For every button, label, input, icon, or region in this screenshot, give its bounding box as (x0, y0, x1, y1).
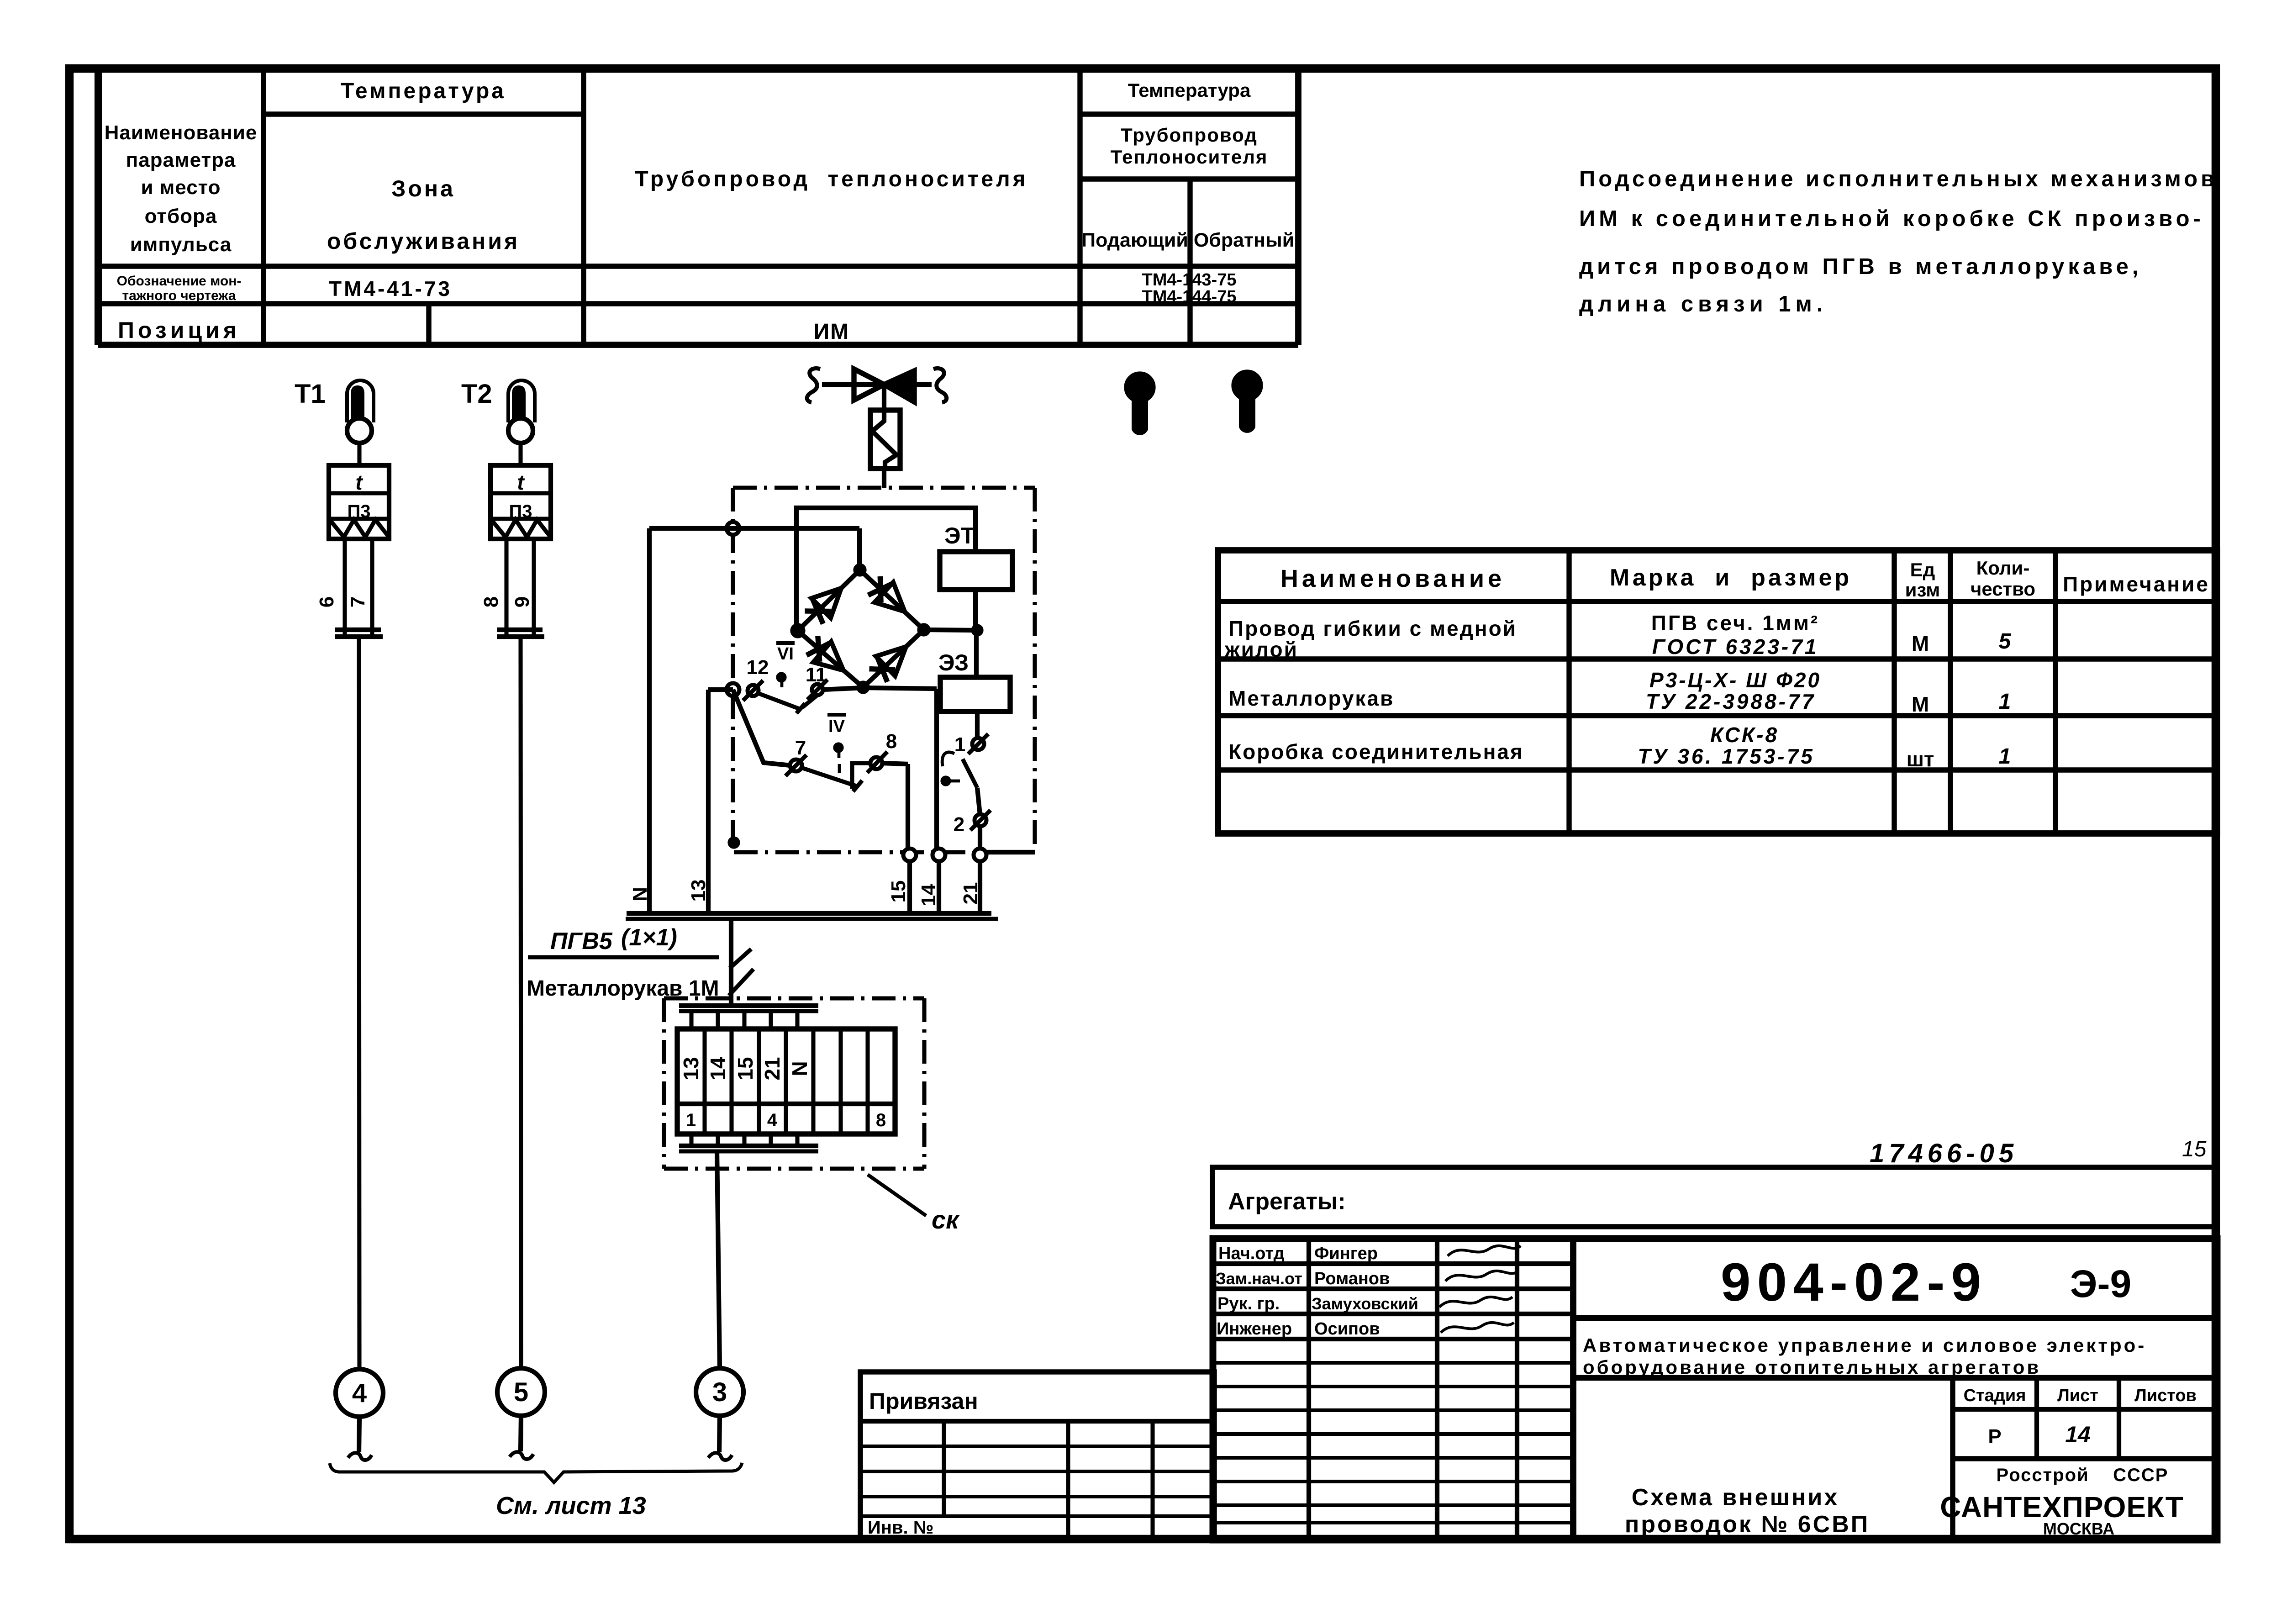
label 7 (347, 596, 369, 607)
svg-text:Наименование: Наименование (1280, 565, 1505, 592)
svg-text:3: 3 (712, 1377, 727, 1407)
wire CK to circle 3 (717, 1151, 720, 1367)
boundary circle wire 14 (933, 849, 945, 861)
label 6 (316, 596, 338, 607)
leader line ПГВ5 (528, 949, 751, 968)
label 11 (806, 664, 827, 686)
wire 9 of T2 (532, 539, 536, 635)
svg-text:отбора: отбора (145, 205, 217, 227)
svg-text:Листов: Листов (2134, 1386, 2197, 1405)
svg-text:4: 4 (352, 1378, 367, 1408)
svg-text:Теплоносителя: Теплоносителя (1111, 146, 1268, 168)
wire 6 of T1 (342, 539, 347, 635)
svg-text:Автоматическое управление и: Автоматическое управление и силовое элек… (1583, 1334, 2146, 1356)
CK terminal numbers (679, 1057, 886, 1130)
wire T1 bulb to sensor box (357, 443, 361, 465)
units box (1212, 1167, 2217, 1227)
label ЭТ (944, 523, 975, 548)
svg-text:Подающий: Подающий (1081, 229, 1188, 251)
contact 1 hook (942, 752, 954, 766)
CK bottom bus bars (679, 1146, 818, 1151)
svg-text:МОСКВА: МОСКВА (2043, 1519, 2114, 1538)
svg-text:Лист: Лист (2057, 1386, 2098, 1405)
svg-text:П3: П3 (348, 501, 371, 522)
pin circle 11 (807, 680, 827, 700)
brace under circles (330, 1463, 742, 1482)
svg-text:Примечание: Примечание (2063, 572, 2210, 596)
svg-text:6: 6 (316, 596, 338, 607)
binding block grid (860, 1372, 1214, 1540)
svg-text:8: 8 (886, 730, 897, 753)
parameters table texts (105, 79, 1295, 344)
wire pin8 to corner (882, 763, 908, 764)
sensor head box T1 (t / П3) (329, 465, 389, 539)
svg-text:13: 13 (679, 1057, 703, 1080)
svg-text:t: t (517, 470, 525, 494)
svg-text:Металлорукав 1М: Металлорукав 1М (527, 976, 719, 1001)
relay coil ЭТ (940, 552, 1012, 590)
parts table grid (1218, 550, 2217, 833)
svg-text:жилой: жилой (1224, 638, 1298, 661)
label VI with overbar (776, 643, 795, 664)
diode D3 (left-bottom edge) (806, 636, 843, 670)
svg-text:Наименование: Наименование (105, 121, 258, 144)
svg-text:Схема внешних: Схема внешних (1632, 1484, 1839, 1511)
svg-text:Температура: Температура (1128, 79, 1251, 101)
svg-text:1: 1 (1999, 690, 2011, 714)
svg-text:15: 15 (887, 881, 910, 903)
svg-text:Ед: Ед (1910, 559, 1935, 580)
svg-text:ЭЗ: ЭЗ (938, 650, 969, 675)
diode D2 (top-right edge) (868, 576, 905, 612)
label Агрегаты (1228, 1188, 1346, 1215)
pin circle 8 (867, 752, 887, 773)
wire to bridge top (857, 528, 862, 570)
inner box top edge (796, 508, 975, 631)
wire from T2 down to circle 5 (521, 637, 521, 1368)
svg-text:IV: IV (828, 717, 845, 736)
label 21 (959, 882, 982, 905)
svg-text:параметра: параметра (126, 149, 236, 171)
CK top bus bars (679, 1006, 818, 1011)
tilde end wire 4 (348, 1453, 372, 1460)
wire from T1 down to circle 4 (359, 637, 359, 1369)
label Инв № (868, 1518, 933, 1538)
title block signature names (1216, 1244, 1418, 1339)
svg-text:Э-9: Э-9 (2070, 1262, 2131, 1305)
parameters table grid (98, 68, 1298, 345)
svg-text:Зам.нач.от: Зам.нач.от (1216, 1269, 1302, 1288)
svg-text:ПГВ сеч. 1мм²: ПГВ сеч. 1мм² (1651, 611, 1819, 635)
svg-text:Обозначение мон-: Обозначение мон- (117, 274, 242, 289)
svg-text:14: 14 (2065, 1422, 2091, 1447)
junction circle on IM boundary (mid) (727, 683, 739, 696)
fixed contact L from pin 8 (852, 763, 870, 789)
wire 11 to corner (823, 688, 937, 690)
svg-text:21: 21 (760, 1057, 784, 1080)
wire 7 of T1 (370, 539, 374, 635)
svg-text:ТМ4-144-75: ТМ4-144-75 (1142, 287, 1237, 306)
svg-text:VI: VI (777, 644, 794, 664)
svg-text:N: N (788, 1061, 811, 1076)
svg-text:ТМ4-41-73: ТМ4-41-73 (329, 277, 452, 301)
svg-text:ТУ 22-3988-77: ТУ 22-3988-77 (1646, 690, 1816, 713)
svg-text:Росстрой СССР: Росстрой СССР (1997, 1465, 2169, 1485)
label Привязан (869, 1388, 978, 1414)
svg-text:ИМ к соединительной коробке: ИМ к соединительной коробке СК произво- (1579, 206, 2204, 231)
svg-text:8: 8 (876, 1110, 886, 1130)
svg-text:Зона: Зона (391, 176, 455, 201)
svg-text:Рук. гр.: Рук. гр. (1217, 1294, 1280, 1313)
wire N vertical (647, 528, 652, 914)
thermometer bulb T2 (508, 380, 535, 443)
page number 15 (2182, 1137, 2207, 1161)
svg-text:ск: ск (932, 1205, 960, 1234)
title block grid (1213, 1239, 2217, 1540)
diode bridge frame (791, 564, 930, 693)
CK wires strip to bottom bus (691, 1134, 797, 1146)
svg-text:9: 9 (511, 596, 533, 607)
svg-text:Позиция: Позиция (118, 317, 240, 343)
contact blade 1 (963, 759, 977, 788)
diode D4 (bottom-right edge) (869, 647, 906, 682)
signatures (1439, 1246, 1521, 1333)
wire 13 from junction (708, 687, 733, 692)
label T2 (461, 379, 492, 409)
mech link dot contact 1 (941, 776, 960, 786)
inventory number 17466-05 (1870, 1139, 2018, 1168)
svg-text:тажного чертежа: тажного чертежа (122, 288, 236, 303)
svg-text:Провод гибкии с медной: Провод гибкии с медной (1228, 617, 1517, 640)
svg-text:Металлорукав: Металлорукав (1228, 686, 1394, 710)
circle 4 (336, 1369, 383, 1417)
bus bar double line (626, 913, 998, 919)
black dot on IM left edge bottom (728, 837, 739, 848)
svg-text:14: 14 (917, 884, 940, 906)
svg-text:и место: и место (141, 176, 221, 199)
CK wires bus to strip (691, 1011, 797, 1029)
svg-text:Романов: Романов (1314, 1269, 1390, 1288)
svg-text:8: 8 (480, 596, 502, 607)
svg-text:Замуховский: Замуховский (1312, 1294, 1418, 1313)
svg-text:N: N (629, 887, 651, 902)
label 8 (contact) (886, 730, 897, 753)
svg-text:Фингер: Фингер (1314, 1244, 1378, 1263)
svg-text:4: 4 (767, 1110, 778, 1130)
svg-text:Р3-Ц-Х- Ш Ф20: Р3-Ц-Х- Ш Ф20 (1649, 668, 1821, 692)
wire 8 of T2 (504, 539, 508, 635)
svg-text:импульса: импульса (130, 233, 232, 256)
pin circle 2 (970, 810, 991, 830)
wire pin1 to pin2 (977, 788, 980, 815)
svg-text:5: 5 (1999, 629, 2012, 654)
svg-text:Т1: Т1 (295, 379, 326, 409)
contact blade 12 (758, 693, 805, 713)
svg-text:ПГВ5: ПГВ5 (550, 928, 613, 954)
label IV with overbar (827, 715, 846, 736)
svg-text:чество: чество (1971, 578, 2035, 600)
wire bridge right to node (924, 630, 975, 630)
svg-text:1: 1 (954, 733, 965, 756)
svg-text:(1×1): (1×1) (621, 924, 677, 951)
svg-text:Нач.отд: Нач.отд (1218, 1244, 1285, 1263)
label 2 (pin) (954, 813, 964, 836)
svg-text:1: 1 (1999, 744, 2011, 769)
mech link dot IV (834, 743, 843, 773)
circle 3 (696, 1368, 743, 1416)
tilde end wire 5 (510, 1452, 533, 1459)
diode D1 (left-top edge) (805, 588, 841, 624)
svg-text:12: 12 (747, 656, 769, 679)
wire ЭЗ to pin 1 (975, 712, 980, 738)
svg-text:Р: Р (1988, 1425, 2001, 1448)
wire ЭТ to node (973, 590, 978, 630)
svg-text:21: 21 (959, 882, 982, 905)
wire actuator to IM box (882, 469, 886, 488)
svg-text:М: М (1912, 692, 1929, 716)
boundary circle wire 21 (974, 849, 986, 861)
parts table texts (1224, 557, 2210, 771)
wire 21 below box (978, 861, 982, 914)
node dot right (972, 625, 983, 636)
svg-text:Трубопровод: Трубопровод (1121, 124, 1258, 146)
wire 15 vertical (908, 764, 910, 914)
label 12 (747, 656, 769, 679)
wire 13 vertical (706, 690, 711, 914)
wire N horizontal (649, 526, 859, 531)
label ПГВ5 (1x1) (550, 924, 677, 954)
label 7 (contact) (795, 737, 806, 759)
wire bus to CK box (729, 919, 733, 1006)
svg-text:13: 13 (687, 880, 710, 902)
label 9 (T2 wire) (511, 596, 533, 607)
svg-text:оборудование отопительных аг: оборудование отопительных агрегатов (1583, 1356, 2041, 1378)
fixed contact 11 (802, 695, 817, 707)
label 8 (T2 wire) (480, 596, 502, 607)
svg-text:15: 15 (733, 1057, 757, 1080)
svg-text:Т2: Т2 (461, 379, 492, 409)
svg-text:Инженер: Инженер (1217, 1319, 1292, 1339)
label 1 (pin) (954, 733, 965, 756)
svg-text:См. лист 13: См. лист 13 (496, 1492, 646, 1519)
svg-text:ГОСТ 6323-71: ГОСТ 6323-71 (1652, 635, 1819, 659)
svg-text:Агрегаты:: Агрегаты: (1228, 1188, 1346, 1215)
svg-text:длина связи 1м.: длина связи 1м. (1579, 292, 1827, 316)
svg-text:t: t (355, 470, 363, 494)
boundary circle wire 15 (903, 849, 916, 861)
relay coil ЭЗ (940, 677, 1010, 712)
pin circle 12 (743, 680, 763, 701)
svg-text:Обратный: Обратный (1194, 229, 1294, 251)
svg-text:П3: П3 (509, 501, 532, 522)
electromagnetic actuator on valve (870, 385, 900, 469)
svg-text:ИМ: ИМ (814, 320, 849, 344)
circle 5 (497, 1368, 545, 1416)
label N (629, 887, 651, 902)
pair-merge bars T1 (335, 630, 383, 637)
sensor head box T2 (t / П3) (490, 465, 551, 539)
wire right corner of IM box (985, 850, 1035, 854)
valve (two-triangle symbol) (807, 369, 947, 402)
CK terminal strip grid (677, 1029, 895, 1134)
pair-merge bars T2 (497, 630, 544, 637)
svg-text:КСК-8: КСК-8 (1710, 723, 1779, 747)
mech link dot VI (777, 673, 786, 687)
title block texts (1583, 1252, 2197, 1538)
black capsule pin 2 (1232, 370, 1262, 433)
pin circle 1 (968, 734, 988, 754)
svg-text:Марка и размер: Марка и размер (1610, 564, 1852, 591)
label T1 (295, 379, 326, 409)
svg-text:17466-05: 17466-05 (1870, 1139, 2018, 1168)
svg-text:Осипов: Осипов (1314, 1319, 1380, 1339)
svg-text:Подсоединение исполнительных м: Подсоединение исполнительных механизмов (1579, 167, 2218, 191)
svg-text:2: 2 (954, 813, 964, 836)
black capsule pin 1 (1125, 372, 1155, 435)
svg-text:М: М (1912, 632, 1929, 655)
svg-text:Температура: Температура (341, 79, 506, 103)
contact blade 7 (801, 768, 862, 791)
wire circle 3 tail (719, 1416, 720, 1452)
label Металлорукав 1М (527, 976, 719, 1001)
svg-text:шт: шт (1907, 747, 1934, 771)
label 15 (887, 881, 910, 903)
svg-text:7: 7 (347, 596, 369, 607)
CK label leader (868, 1175, 926, 1216)
label См. лист 13 (496, 1492, 646, 1519)
svg-text:обслуживания: обслуживания (327, 228, 520, 254)
wire 14 vertical (937, 689, 939, 914)
svg-text:САНТЕХПРОЕКТ: САНТЕХПРОЕКТ (1940, 1491, 2184, 1524)
tilde end wire 3 (708, 1453, 732, 1460)
svg-text:изм: изм (1905, 579, 1940, 601)
thermometer bulb T1 (347, 380, 374, 443)
wire T2 bulb to sensor box (518, 443, 522, 465)
svg-text:1: 1 (686, 1110, 696, 1130)
wire node to ЭЗ (974, 630, 979, 677)
svg-text:Коли-: Коли- (1976, 557, 2030, 579)
instruction note text (1579, 167, 2218, 316)
svg-text:5: 5 (514, 1377, 528, 1407)
svg-text:15: 15 (2182, 1137, 2207, 1161)
svg-text:Трубопровод теплоносителя: Трубопровод теплоносителя (635, 167, 1028, 191)
junction circle on IM boundary (top) (727, 522, 739, 535)
svg-text:14: 14 (706, 1057, 730, 1081)
label CK (932, 1205, 960, 1234)
svg-text:ЭТ: ЭТ (944, 523, 975, 548)
label 13 (687, 880, 710, 902)
svg-text:ТУ 36. 1753-75: ТУ 36. 1753-75 (1638, 744, 1815, 768)
svg-text:Инв. №: Инв. № (868, 1518, 933, 1538)
wire circle 4 tail (359, 1417, 359, 1452)
svg-text:Стадия: Стадия (1964, 1386, 2026, 1405)
wire pin2 to bus circle (978, 826, 982, 849)
wire junction to contact 7 (733, 690, 790, 765)
pin circle 7 (785, 755, 806, 776)
svg-text:ТМ4-143-75: ТМ4-143-75 (1142, 270, 1237, 290)
wire circle 5 tail (521, 1416, 521, 1451)
svg-text:Коробка соединительная: Коробка соединительная (1228, 740, 1524, 764)
label ЭЗ (938, 650, 969, 675)
svg-text:дится проводом ПГВ в метал: дится проводом ПГВ в металлорукаве, (1579, 254, 2142, 279)
svg-text:Привязан: Привязан (869, 1388, 978, 1414)
svg-text:проводок № 6СВП: проводок № 6СВП (1625, 1511, 1870, 1538)
IM enclosure dash-dot box (733, 488, 1035, 852)
CK box dash-dot boundary (664, 998, 924, 1169)
label 14 (917, 884, 940, 906)
svg-text:904-02-9: 904-02-9 (1721, 1252, 1987, 1313)
leader slash Металлорукав (729, 969, 753, 996)
